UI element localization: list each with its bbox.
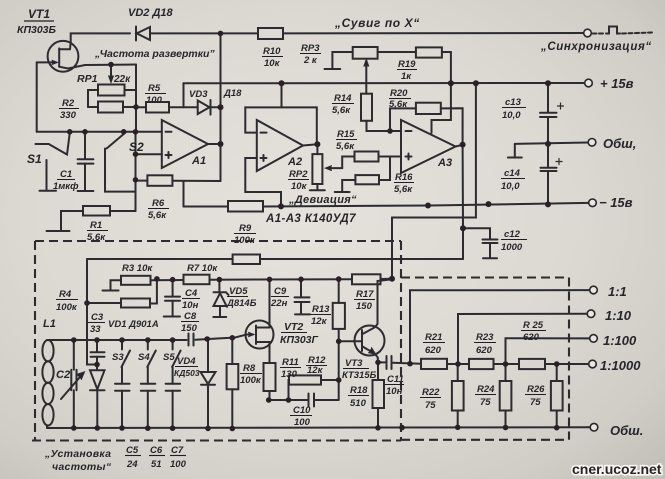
svg-text:10к: 10к — [291, 181, 308, 192]
svg-text:100к: 100к — [234, 235, 256, 246]
svg-text:100: 100 — [170, 459, 187, 470]
svg-text:2 к: 2 к — [303, 55, 318, 66]
svg-text:12к: 12к — [311, 316, 328, 327]
svg-text:С11: С11 — [387, 374, 404, 385]
svg-text:С10: С10 — [293, 405, 311, 416]
transistor VT3 — [355, 326, 385, 356]
svg-text:5,6к: 5,6к — [148, 210, 167, 221]
capacitor C4 — [172, 280, 174, 296]
svg-text:VT3: VT3 — [345, 358, 363, 369]
resistor R1 — [83, 206, 110, 216]
resistor R22 — [457, 364, 459, 381]
capacitor C10 — [269, 399, 307, 401]
resistor R26 — [556, 364, 558, 381]
svg-text:„Установка: „Установка — [44, 448, 111, 460]
potentiometer RP3 — [353, 47, 378, 59]
wire A1 minus line — [37, 131, 162, 133]
svg-text:RP2: RP2 — [289, 169, 308, 180]
svg-text:10к: 10к — [264, 58, 281, 69]
wire tank top — [47, 339, 187, 341]
op-amp A1 — [162, 120, 208, 168]
svg-text:75: 75 — [530, 397, 541, 408]
svg-text:620: 620 — [425, 345, 442, 356]
capacitor C8 — [189, 334, 194, 346]
svg-text:R18: R18 — [350, 385, 368, 396]
svg-text:С8: С8 — [184, 311, 197, 322]
svg-text:„Сувиг по Х“: „Сувиг по Х“ — [334, 16, 420, 30]
resistor R13 — [338, 279, 340, 303]
resistor R23 — [469, 359, 494, 369]
svg-text:100: 100 — [146, 95, 163, 106]
wire minus15 rail — [263, 203, 589, 207]
svg-text:„Синхронизация“: „Синхронизация“ — [540, 41, 652, 53]
svg-text:+ 15в: + 15в — [600, 76, 634, 91]
svg-text:75: 75 — [425, 400, 436, 411]
svg-text:R5: R5 — [148, 83, 161, 94]
svg-text:VD1 Д901А: VD1 Д901А — [108, 319, 159, 330]
resistor R6 — [147, 175, 172, 186]
potentiometer RP1 — [98, 85, 125, 96]
svg-text:R16: R16 — [395, 172, 413, 183]
wire A2 plus path — [245, 158, 281, 206]
resistor R24 — [505, 364, 507, 381]
svg-text:VT1: VT1 — [28, 7, 50, 21]
svg-text:1:1: 1:1 — [608, 284, 627, 299]
svg-text:75: 75 — [480, 397, 491, 408]
svg-text:R14: R14 — [334, 93, 352, 104]
op-amp A2 — [257, 120, 303, 171]
svg-text:10,0: 10,0 — [501, 181, 520, 192]
svg-text:R 25: R 25 — [523, 320, 544, 331]
svg-text:100: 100 — [294, 417, 311, 428]
svg-text:Д18: Д18 — [223, 88, 242, 99]
wire A3 out — [456, 145, 463, 147]
diode VD4 — [207, 339, 209, 371]
svg-text:100к: 100к — [240, 375, 262, 386]
svg-text:S1: S1 — [27, 152, 42, 166]
svg-text:5,6к: 5,6к — [332, 105, 351, 116]
svg-text:R20: R20 — [390, 88, 408, 99]
svg-text:1:1000: 1:1000 — [600, 358, 641, 373]
svg-text:S3: S3 — [112, 352, 124, 363]
wire +15 rail — [184, 82, 585, 84]
resistor R21 — [421, 359, 447, 369]
svg-text:100к: 100к — [56, 302, 78, 313]
inductor L1 — [42, 340, 53, 361]
capacitor C13 — [547, 83, 549, 112]
wire varicap control line — [87, 258, 233, 260]
svg-text:С7: С7 — [171, 445, 184, 456]
wire A2 power — [281, 83, 283, 107]
svg-text:А1-А3 К140УД7: А1-А3 К140УД7 — [265, 213, 356, 225]
svg-text:С1: С1 — [60, 169, 72, 180]
resistor R20 — [416, 103, 441, 114]
resistor R2 — [98, 102, 123, 113]
wire ground rail bottom — [47, 426, 591, 429]
svg-text:24: 24 — [126, 459, 138, 470]
svg-text:А2: А2 — [287, 156, 302, 168]
sync pulse symbol — [593, 33, 604, 35]
wire common rail — [515, 143, 588, 144]
potentiometer RP2 — [312, 154, 322, 184]
svg-text:620: 620 — [523, 332, 540, 343]
svg-text:10н: 10н — [182, 300, 199, 311]
wire VT3 base — [339, 340, 362, 342]
svg-text:cner.ucoz.net: cner.ucoz.net — [572, 461, 662, 477]
svg-text:С9: С9 — [274, 286, 287, 297]
svg-text:С5: С5 — [126, 445, 139, 456]
switch S5 — [172, 340, 174, 350]
svg-text:VD2 Д18: VD2 Д18 — [128, 7, 174, 19]
svg-text:Обш.: Обш. — [610, 423, 643, 438]
capacitor C2 variable — [73, 340, 75, 370]
svg-text:с13: с13 — [505, 97, 522, 108]
wire +15 feed corner — [183, 83, 185, 107]
resistor R3 — [121, 276, 151, 285]
svg-text:− 15в: − 15в — [599, 195, 633, 210]
dashed box attenuator — [401, 276, 569, 278]
svg-text:С2: С2 — [56, 369, 70, 381]
wire 1:10 — [458, 314, 587, 364]
svg-text:5,6к: 5,6к — [394, 184, 413, 195]
svg-text:VD3: VD3 — [189, 89, 208, 100]
svg-text:R10: R10 — [263, 46, 281, 57]
wire R12 node vertical — [338, 341, 340, 400]
svg-text:R2: R2 — [62, 98, 75, 109]
svg-text:R15: R15 — [337, 129, 355, 140]
wire vertical x220 — [220, 33, 222, 181]
svg-text:Обш,: Обш, — [603, 136, 636, 151]
svg-text:VD5: VD5 — [229, 286, 248, 297]
diode VD3 — [198, 101, 210, 115]
svg-text:Д814Б: Д814Б — [226, 298, 257, 309]
resistor R5 — [146, 102, 169, 113]
terminal circles — [584, 29, 598, 431]
capacitor C12 — [483, 240, 498, 244]
varicap VD1 — [90, 370, 105, 389]
svg-text:12к: 12к — [307, 365, 324, 376]
resistor R11 — [264, 363, 276, 391]
capacitor C14 — [547, 144, 549, 167]
dashed box oscillator — [35, 240, 401, 242]
op-amp A3 — [401, 120, 456, 173]
svg-text:5,6к: 5,6к — [87, 232, 106, 243]
svg-text:S5: S5 — [163, 352, 175, 363]
svg-text:„Девиация“: „Девиация“ — [288, 194, 357, 206]
svg-text:51: 51 — [151, 459, 162, 470]
resistor R4 — [121, 299, 150, 308]
svg-text:130: 130 — [281, 369, 298, 380]
svg-text:КП303Б: КП303Б — [17, 24, 57, 36]
switch S1 — [36, 143, 49, 145]
svg-text:S4: S4 — [138, 352, 150, 363]
svg-text:L1: L1 — [43, 318, 56, 330]
svg-text:А1: А1 — [191, 155, 206, 167]
svg-text:1мкф: 1мкф — [53, 181, 79, 192]
svg-text:VT2: VT2 — [284, 321, 303, 333]
svg-text:10,0: 10,0 — [502, 110, 521, 121]
svg-text:частоты“: частоты“ — [52, 461, 112, 473]
switch S3 — [121, 340, 123, 350]
wire A3out down — [462, 145, 464, 229]
svg-text:С3: С3 — [91, 312, 104, 323]
svg-text:R19: R19 — [398, 59, 416, 70]
svg-text:5,6к: 5,6к — [336, 141, 355, 152]
svg-text:R23: R23 — [476, 332, 494, 343]
resistor R14 — [361, 94, 372, 121]
resistor R17 — [352, 274, 381, 284]
resistor R15 — [355, 152, 379, 162]
svg-text:с14: с14 — [504, 168, 521, 179]
wire 1:100 — [506, 338, 590, 364]
svg-text:510: 510 — [350, 398, 367, 409]
svg-text:RP3: RP3 — [301, 43, 320, 54]
svg-text:10н: 10н — [386, 386, 403, 397]
resistor R25 — [519, 359, 545, 369]
diode VD2 — [137, 27, 150, 40]
zener VD5 — [218, 280, 220, 292]
resistor R19 — [416, 47, 442, 57]
svg-text:22к: 22к — [113, 74, 131, 85]
wire VD2 cathode to R10 — [150, 32, 258, 34]
svg-text:R7 10к: R7 10к — [187, 263, 218, 274]
wire A2 feedback — [245, 107, 316, 144]
svg-text:R9: R9 — [239, 223, 252, 234]
svg-text:R4: R4 — [59, 289, 72, 300]
wire A1 plus — [136, 153, 162, 155]
resistor R18 — [377, 362, 379, 380]
svg-text:КТ315Б: КТ315Б — [342, 370, 377, 381]
wire R10 to sync terminal — [283, 32, 583, 34]
wire VT1 drain to top rail — [70, 33, 130, 49]
svg-text:VD4: VD4 — [177, 356, 196, 367]
capacitor C9 — [300, 279, 302, 296]
svg-text:„Частота развертки”: „Частота развертки” — [94, 48, 215, 60]
wire 1:1 — [410, 290, 590, 364]
svg-text:R17: R17 — [356, 289, 374, 300]
resistor R7 — [184, 275, 210, 285]
svg-text:R22: R22 — [422, 387, 440, 398]
svg-text:А3: А3 — [437, 157, 452, 169]
svg-text:R1: R1 — [90, 220, 102, 231]
switch S4 — [147, 340, 149, 350]
svg-text:R11: R11 — [282, 357, 299, 368]
svg-text:С6: С6 — [150, 445, 163, 456]
svg-text:R26: R26 — [527, 384, 545, 395]
svg-text:330: 330 — [60, 110, 77, 121]
wire A1out node down to A2 path — [183, 181, 185, 207]
svg-text:КД503: КД503 — [174, 368, 200, 378]
switch S2 — [107, 134, 124, 149]
svg-text:КП303Г: КП303Г — [280, 334, 319, 346]
resistor R12 — [289, 375, 321, 384]
transistor VT1 — [48, 41, 79, 72]
svg-text:1:10: 1:10 — [605, 308, 632, 323]
wire node x135.5 vertical — [135, 132, 137, 211]
wire VT2 gate — [196, 335, 247, 340]
resistor R8 — [231, 338, 233, 364]
dashed frames — [32, 241, 569, 441]
wire VT1 gate down — [36, 62, 38, 131]
svg-text:R21: R21 — [425, 332, 442, 343]
svg-text:с12: с12 — [504, 229, 521, 240]
svg-text:1:100: 1:100 — [603, 333, 637, 348]
svg-text:S2: S2 — [129, 140, 144, 154]
capacitor C11 — [378, 361, 385, 363]
svg-text:150: 150 — [356, 301, 373, 312]
wire node x136 vertical — [135, 65, 137, 132]
capacitor C1 — [84, 132, 86, 159]
svg-text:1000: 1000 — [501, 242, 523, 253]
capacitor C3 — [96, 340, 98, 352]
svg-text:RP1: RP1 — [77, 73, 98, 85]
svg-text:R24: R24 — [477, 384, 495, 395]
svg-text:150: 150 — [181, 323, 198, 334]
wire supply loop to VT stage — [392, 83, 476, 278]
wire R19 down / R20 top supply — [450, 52, 452, 108]
svg-text:R6: R6 — [152, 198, 165, 209]
svg-text:1к: 1к — [401, 71, 412, 82]
svg-text:5,6к: 5,6к — [389, 99, 408, 110]
resistor R9 — [184, 206, 229, 208]
transistor VT2 — [246, 321, 274, 349]
svg-text:R8: R8 — [243, 363, 256, 374]
svg-text:33: 33 — [90, 324, 101, 335]
resistor R16 — [355, 175, 379, 184]
resistor R10 — [258, 28, 283, 39]
svg-text:620: 620 — [476, 345, 493, 356]
svg-text:R3 10к: R3 10к — [122, 263, 153, 274]
watermark — [572, 461, 662, 477]
svg-text:22н: 22н — [270, 298, 288, 309]
wire R4 column — [87, 259, 95, 365]
svg-text:С4: С4 — [185, 288, 198, 299]
svg-text:R13: R13 — [312, 304, 330, 315]
